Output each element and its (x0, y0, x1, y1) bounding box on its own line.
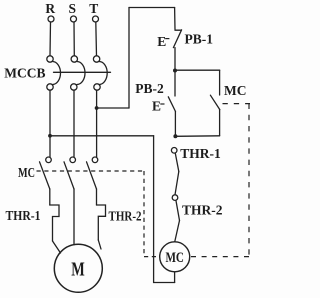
svg-text:THR-1: THR-1 (6, 208, 41, 223)
svg-text:PB-2: PB-2 (135, 81, 164, 96)
svg-text:PB-1: PB-1 (185, 31, 214, 46)
svg-text:THR-2: THR-2 (182, 203, 223, 218)
svg-text:M: M (71, 258, 85, 280)
svg-text:R: R (45, 1, 55, 16)
svg-text:E: E (157, 34, 166, 49)
svg-text:THR-2: THR-2 (109, 209, 142, 224)
svg-text:T: T (89, 1, 98, 16)
svg-text:MC: MC (224, 83, 247, 98)
svg-text:MCCB: MCCB (4, 65, 45, 80)
svg-text:S: S (69, 1, 77, 16)
svg-text:MC: MC (165, 250, 184, 266)
svg-text:THR-1: THR-1 (180, 146, 221, 161)
svg-text:E: E (152, 99, 161, 114)
svg-text:MC: MC (18, 165, 35, 180)
